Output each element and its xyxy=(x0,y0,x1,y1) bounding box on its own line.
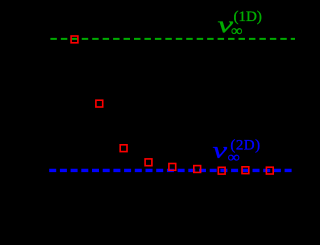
svg-text:(1D): (1D) xyxy=(234,9,262,25)
svg-text:(2D): (2D) xyxy=(230,138,260,154)
svg-text:v: v xyxy=(213,138,228,164)
svg-text:∞: ∞ xyxy=(231,24,243,40)
